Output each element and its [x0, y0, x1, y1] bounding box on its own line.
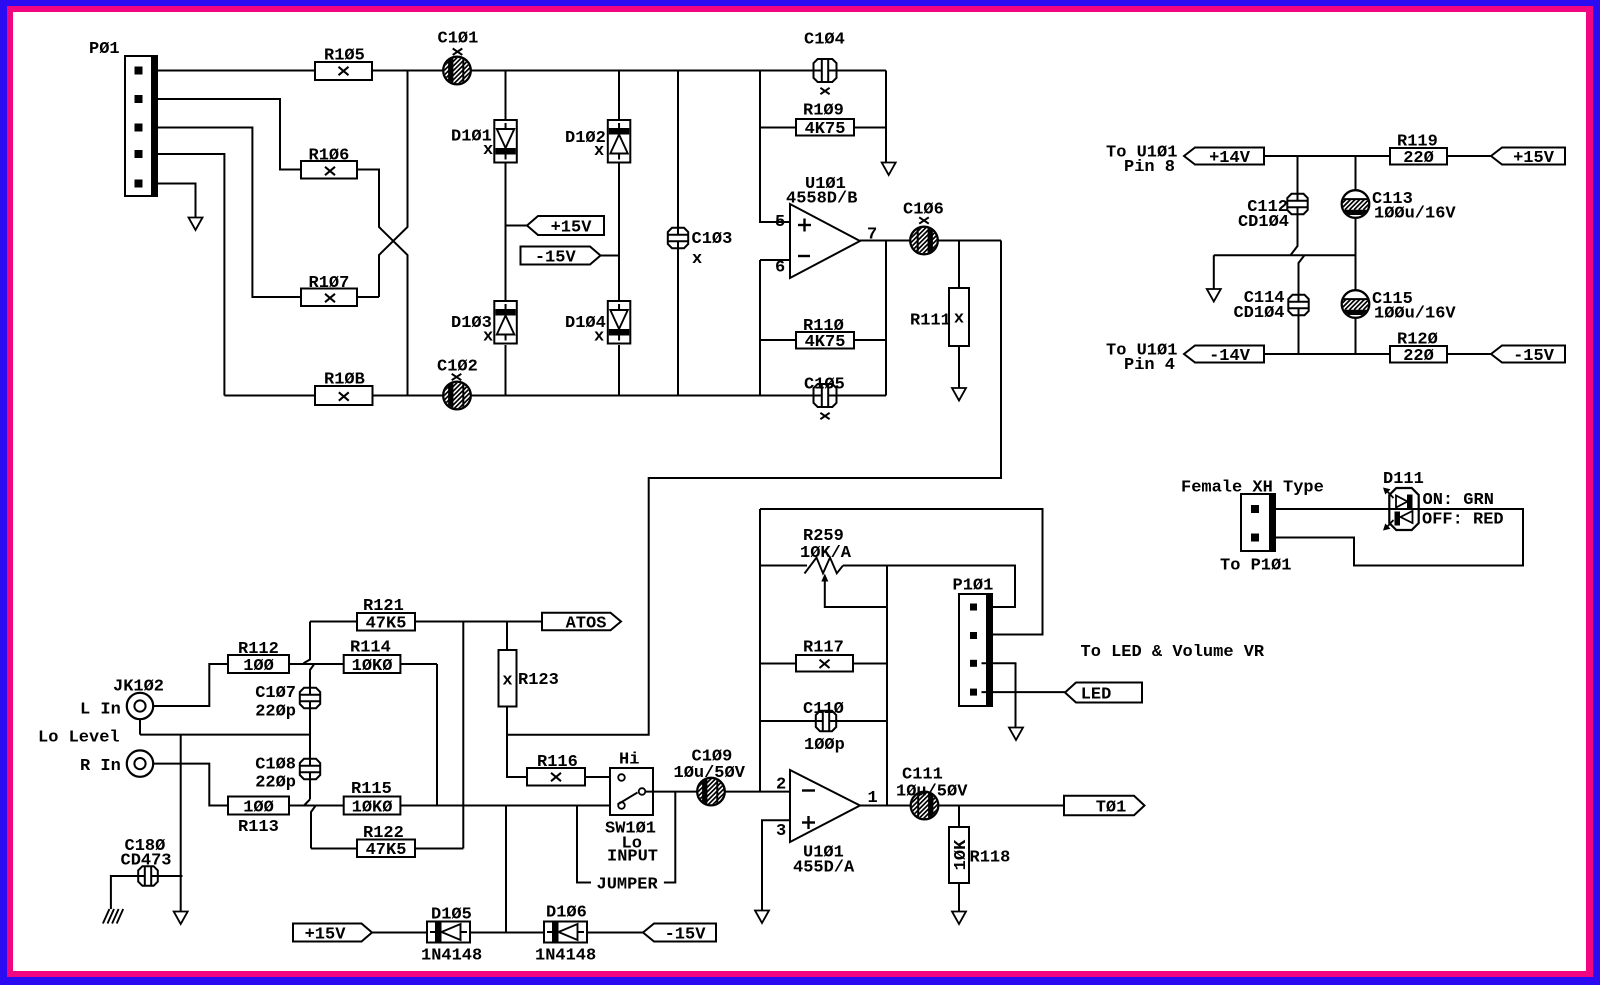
svg-text:22Ø: 22Ø	[1403, 347, 1434, 366]
diode D105	[427, 922, 470, 943]
svg-text:JUMPER: JUMPER	[597, 876, 659, 895]
power flag +14V	[1184, 148, 1264, 165]
svg-text:D1Ø6: D1Ø6	[546, 904, 587, 923]
resistor R10B	[315, 386, 373, 405]
bottom bus wire	[224, 395, 886, 397]
svg-text:To LED & Volume VR: To LED & Volume VR	[1081, 643, 1265, 662]
resistor R121	[310, 621, 542, 623]
svg-text:7: 7	[867, 226, 877, 245]
op-amp U101 4558D/B	[790, 204, 860, 278]
input divider bus	[304, 622, 316, 849]
power flag +15V bottom	[293, 924, 372, 942]
diode D102	[608, 120, 631, 163]
wire switch common to op-amp pin2	[645, 791, 790, 793]
svg-text:x: x	[483, 141, 493, 160]
wire R116 to switch Hi	[585, 776, 618, 778]
wire R121 to R122 vertical	[462, 622, 464, 849]
wire feedback loop C106 to lower section	[507, 241, 1001, 735]
power flag -15V	[601, 255, 620, 257]
svg-text:R119: R119	[1397, 133, 1438, 152]
svg-text:L In: L In	[80, 701, 121, 720]
svg-text:2: 2	[776, 776, 786, 795]
wire node to op-amp pin5	[760, 71, 790, 223]
wire Lo Level ground branch	[180, 735, 182, 912]
svg-text:+14V: +14V	[1209, 149, 1251, 168]
svg-text:+15V: +15V	[551, 218, 593, 237]
resistor R112	[228, 655, 289, 673]
svg-text:PØ1: PØ1	[89, 40, 120, 59]
svg-text:To P1Ø1: To P1Ø1	[1220, 557, 1291, 576]
wire R115 to switch Lo	[400, 805, 618, 807]
mid rail wire	[1214, 254, 1356, 256]
wire R123 node down to diode junction	[505, 806, 507, 933]
capacitor C105	[814, 384, 837, 407]
power flag +15V right	[1491, 148, 1565, 165]
svg-text:1ØØu/16V: 1ØØu/16V	[1374, 305, 1456, 324]
svg-text:x: x	[483, 328, 493, 347]
wire R105 to C101	[372, 70, 444, 72]
ground R118	[952, 912, 966, 925]
capacitor C107	[300, 688, 320, 708]
svg-text:R In: R In	[80, 757, 121, 776]
power flag -15V bottom	[643, 924, 716, 942]
svg-text:x: x	[954, 310, 964, 329]
svg-text:C1Ø1: C1Ø1	[438, 30, 479, 49]
svg-text:22Ø: 22Ø	[1403, 149, 1434, 168]
wire op-amp pin3 to ground	[762, 820, 790, 910]
wire output to C106 and loop	[860, 240, 1001, 242]
svg-text:1ØKØ: 1ØKØ	[352, 798, 393, 817]
wire P01 pin3 to R107	[157, 128, 301, 298]
svg-text:P1Ø1: P1Ø1	[953, 577, 994, 596]
wire -14V to R120	[1264, 353, 1390, 355]
svg-text:TØ1: TØ1	[1096, 798, 1127, 817]
svg-text:1N4148: 1N4148	[535, 947, 596, 966]
svg-text:1Øu/5ØV: 1Øu/5ØV	[674, 764, 746, 783]
resistor R106	[301, 161, 357, 179]
svg-text:1ØØu/16V: 1ØØu/16V	[1374, 205, 1456, 224]
wire D106 to -15V	[587, 932, 643, 934]
wire R119 to +15V	[1447, 155, 1491, 157]
resistor R116	[527, 768, 585, 786]
svg-text:C1Ø2: C1Ø2	[437, 358, 478, 377]
svg-text:R115: R115	[351, 780, 392, 799]
diode D104	[608, 301, 631, 344]
svg-text:D1Ø5: D1Ø5	[431, 906, 472, 925]
ground P01	[189, 218, 203, 231]
svg-text:R116: R116	[537, 753, 578, 772]
svg-text:R1ØB: R1ØB	[324, 371, 365, 390]
ground R109 node	[882, 163, 896, 176]
wire +14V to R119	[1264, 155, 1390, 157]
resistor R123	[507, 622, 527, 778]
svg-text:CD473: CD473	[121, 852, 172, 871]
wire output to T01	[860, 805, 1064, 807]
svg-text:22Øp: 22Øp	[255, 703, 296, 722]
svg-text:C1Ø3: C1Ø3	[692, 230, 733, 249]
power flag +15V	[506, 225, 528, 227]
wire feedback top loop	[760, 509, 1043, 635]
svg-text:+15V: +15V	[1513, 149, 1555, 168]
svg-text:+15V: +15V	[305, 925, 347, 944]
ground hatch C180	[103, 909, 123, 924]
pot wiper arrow	[825, 580, 887, 607]
svg-text:1N4148: 1N4148	[421, 947, 482, 966]
resistor R122	[311, 848, 463, 850]
svg-text:LED: LED	[1081, 685, 1112, 704]
svg-text:x: x	[502, 672, 512, 691]
svg-text:1ØKØ: 1ØKØ	[352, 657, 393, 676]
resistor R105	[315, 62, 372, 80]
svg-text:Hi: Hi	[619, 751, 639, 770]
svg-text:OFF: RED: OFF: RED	[1422, 511, 1504, 530]
wire P01 pin5 to ground	[157, 184, 196, 218]
wire P101 pin4 to LED flag	[982, 691, 1067, 693]
svg-text:INPUT: INPUT	[607, 848, 658, 867]
svg-text:5: 5	[775, 213, 785, 232]
capacitor C180	[111, 876, 183, 909]
op-amp U101 455D/A	[790, 770, 860, 842]
svg-text:C1Ø5: C1Ø5	[804, 376, 845, 395]
resistor R111	[958, 241, 960, 389]
svg-text:C11Ø: C11Ø	[803, 700, 844, 719]
svg-text:ON: GRN: ON: GRN	[1423, 491, 1494, 510]
svg-text:R113: R113	[238, 818, 279, 837]
jack L In	[127, 693, 153, 719]
svg-text:47K5: 47K5	[366, 615, 407, 634]
svg-text:R114: R114	[350, 639, 391, 658]
wire R In to R113	[153, 764, 228, 806]
svg-text:Pin 4: Pin 4	[1124, 356, 1175, 375]
wire D102 column	[618, 71, 620, 396]
svg-text:R1Ø6: R1Ø6	[309, 147, 350, 166]
svg-text:47K5: 47K5	[366, 841, 407, 860]
signal flag T01	[1064, 796, 1145, 816]
wire C103 column	[677, 71, 679, 396]
wire R120 to -15V	[1447, 353, 1491, 355]
svg-text:CD1Ø4: CD1Ø4	[1233, 304, 1284, 323]
wire R107 right to crossover leg	[357, 296, 379, 298]
svg-text:x: x	[594, 142, 604, 161]
wire junction C101 node down to crossover	[379, 71, 408, 298]
svg-text:3: 3	[776, 822, 786, 841]
resistor R117	[760, 663, 887, 665]
wire R106 right to crossover	[357, 170, 408, 396]
wire LED loop	[1275, 509, 1523, 566]
svg-text:1ØK/A: 1ØK/A	[800, 544, 852, 563]
connector P101	[959, 594, 992, 706]
wire P101 pin3 to ground	[982, 663, 1016, 727]
wire pin1 to LED	[1275, 508, 1389, 510]
svg-text:1ØØ: 1ØØ	[243, 798, 274, 817]
wire P01 pin2 to R106	[157, 99, 301, 170]
wire feedback right vertical	[886, 566, 888, 806]
svg-text:455D/A: 455D/A	[793, 859, 855, 878]
svg-text:R111: R111	[910, 312, 951, 331]
capacitor C114	[1288, 295, 1308, 315]
resistor R110	[760, 339, 886, 341]
svg-text:1ØØp: 1ØØp	[804, 736, 845, 755]
svg-text:R1Ø7: R1Ø7	[309, 274, 350, 293]
svg-text:4558D/B: 4558D/B	[786, 190, 857, 209]
wire +15V to D105	[372, 932, 427, 934]
svg-text:R122: R122	[363, 824, 404, 843]
wire C113 branch	[1355, 156, 1357, 354]
potentiometer R259 10K/A	[805, 558, 844, 574]
jack R In	[127, 750, 153, 776]
wire C112 branch	[1291, 156, 1305, 354]
svg-text:6: 6	[775, 259, 785, 278]
power flag -14V	[1184, 346, 1264, 363]
svg-text:Lo Level: Lo Level	[38, 729, 120, 748]
svg-text:1ØK: 1ØK	[952, 839, 971, 870]
resistor R113	[228, 797, 289, 815]
svg-text:x: x	[692, 250, 702, 269]
svg-text:C1Ø7: C1Ø7	[255, 684, 296, 703]
capacitor C110	[760, 720, 887, 722]
svg-text:R12Ø: R12Ø	[1397, 331, 1438, 350]
LED D111	[1389, 488, 1418, 530]
connector to P101	[1241, 494, 1275, 551]
resistor R107	[301, 289, 357, 307]
svg-text:R11Ø: R11Ø	[803, 317, 844, 336]
wire P01 pin4 to bottom bus	[157, 154, 224, 396]
svg-text:R118: R118	[970, 849, 1011, 868]
capacitor C108	[300, 759, 320, 779]
svg-text:-15V: -15V	[665, 925, 707, 944]
svg-text:-14V: -14V	[1209, 347, 1251, 366]
wire pot line	[760, 566, 1015, 608]
svg-text:R1Ø9: R1Ø9	[803, 102, 844, 121]
svg-text:R112: R112	[238, 640, 279, 659]
resistor R119	[1390, 148, 1447, 165]
capacitor C104	[814, 59, 837, 82]
wire D101 column	[505, 71, 507, 396]
svg-text:Pin 8: Pin 8	[1124, 158, 1175, 177]
wire R110 right vertical	[885, 241, 887, 396]
svg-text:4K75: 4K75	[805, 120, 846, 139]
ground mid rail	[1213, 255, 1215, 289]
svg-text:-15V: -15V	[1513, 347, 1555, 366]
diode D101	[494, 120, 517, 163]
resistor R114	[289, 663, 344, 665]
svg-text:1Øu/5ØV: 1Øu/5ØV	[896, 783, 968, 802]
svg-text:C1Ø8: C1Ø8	[255, 756, 296, 775]
connector P01	[125, 56, 157, 196]
wire P01 pin1 to R105	[157, 70, 315, 72]
wire L In to R112	[153, 664, 228, 706]
svg-text:D111: D111	[1383, 470, 1424, 489]
svg-text:ATOS: ATOS	[566, 614, 607, 633]
svg-text:-15V: -15V	[535, 248, 577, 267]
wire right node down to ground	[885, 71, 887, 163]
ground R111	[952, 388, 966, 401]
svg-text:CD1Ø4: CD1Ø4	[1238, 213, 1289, 232]
power flag -15V right	[1491, 346, 1565, 363]
diode D103	[494, 301, 517, 344]
wire feedback left vertical	[759, 509, 761, 792]
svg-text:C1Ø6: C1Ø6	[903, 201, 944, 220]
signal flag ATOS	[542, 613, 621, 631]
capacitor C112	[1287, 194, 1307, 214]
svg-text:R117: R117	[803, 639, 844, 658]
svg-text:R121: R121	[363, 597, 404, 616]
wire L jack stem and Lo Level line	[140, 719, 310, 734]
wire R114 right to Lo line	[400, 664, 437, 806]
svg-text:R123: R123	[518, 671, 559, 690]
resistor R118	[958, 806, 960, 912]
wire D105 to D106	[470, 932, 544, 934]
svg-text:22Øp: 22Øp	[255, 774, 296, 793]
resistor R109	[760, 127, 886, 129]
svg-text:1ØØ: 1ØØ	[243, 657, 274, 676]
svg-text:C1Ø4: C1Ø4	[804, 31, 845, 50]
resistor R115	[289, 805, 344, 807]
svg-text:x: x	[594, 328, 604, 347]
capacitor C103	[668, 228, 688, 248]
switch SW101	[610, 768, 653, 815]
signal flag LED	[1065, 683, 1142, 703]
resistor R120	[1390, 346, 1447, 363]
diode D106	[544, 922, 587, 943]
wire top bus C101 to C104 node	[470, 70, 886, 72]
wire op-amp pin6	[760, 260, 790, 396]
jumper bracket	[577, 792, 675, 883]
svg-text:R1Ø5: R1Ø5	[324, 47, 365, 66]
